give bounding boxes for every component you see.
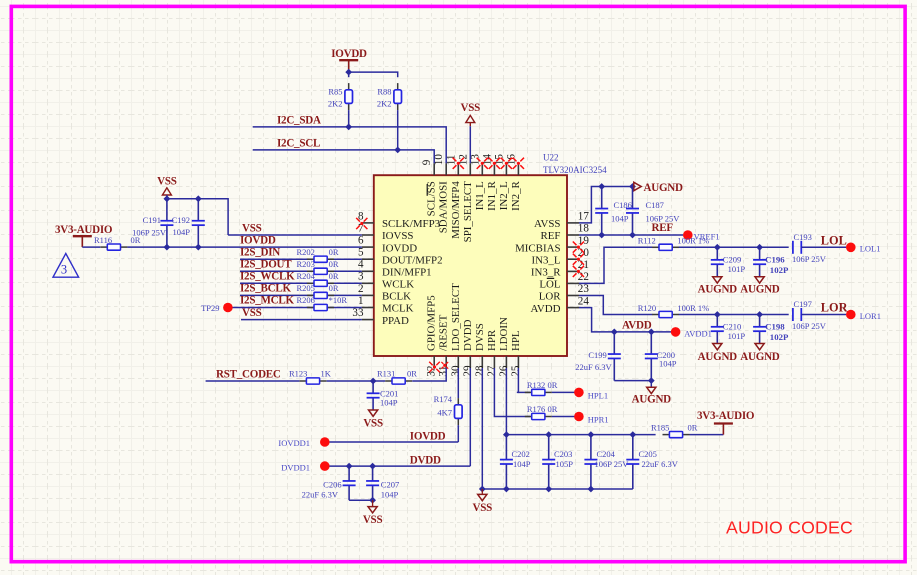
wire pin 29 to DVDD rail [469, 368, 471, 466]
wire VSS to pin 12 [469, 126, 471, 163]
wire net IOVDD to pin 6 [127, 244, 361, 251]
svg-text:26: 26 [498, 365, 510, 377]
svg-text:C196: C196 [765, 254, 785, 264]
svg-text:VSS: VSS [473, 502, 493, 514]
wire C193 to LOL1 [801, 246, 846, 248]
svg-text:I2S_DOUT: I2S_DOUT [240, 259, 292, 271]
net label RST_CODEC [216, 368, 281, 380]
no-connect X pin 31 [441, 362, 448, 369]
svg-text:C197: C197 [794, 299, 812, 309]
svg-text:0R: 0R [329, 247, 339, 257]
capacitor C207 [366, 466, 399, 500]
svg-text:REF: REF [541, 230, 561, 242]
svg-text:IOVDD: IOVDD [382, 242, 417, 254]
svg-text:C204: C204 [597, 449, 616, 459]
net label VSS pin33 [242, 307, 262, 319]
svg-text:C187: C187 [646, 200, 664, 210]
no-connect X pin 21 [573, 266, 584, 277]
net label I2S_MCLK [240, 295, 295, 307]
svg-text:IOVSS: IOVSS [382, 230, 413, 242]
capacitor C205 [626, 435, 678, 489]
ground VSS under C207 [363, 507, 383, 526]
capacitor C199 [575, 332, 621, 381]
svg-text:R203: R203 [297, 259, 315, 269]
sheet marker triangle 3 [53, 254, 79, 278]
svg-text:HPR: HPR [486, 329, 498, 351]
net label I2C_SCL [277, 137, 320, 149]
wire pin 30 to R174 [457, 368, 459, 398]
svg-text:R174: R174 [434, 394, 453, 404]
svg-text:R204: R204 [297, 271, 316, 281]
svg-text:HPL1: HPL1 [588, 390, 608, 400]
no-connect X pin 19 [573, 242, 584, 253]
svg-text:AUGND: AUGND [740, 284, 780, 296]
svg-text:100R 1%: 100R 1% [677, 303, 709, 313]
capacitor C201 [367, 381, 399, 410]
svg-text:0R: 0R [688, 422, 698, 432]
ground AUGND under C196 [740, 277, 780, 296]
svg-text:0R: 0R [329, 259, 339, 269]
svg-text:AVDD: AVDD [622, 319, 652, 331]
resistor R185 [651, 422, 698, 437]
port DVDD1 [281, 461, 329, 472]
svg-text:AUGND: AUGND [644, 182, 684, 194]
svg-text:3: 3 [358, 271, 364, 283]
svg-text:SCLK/MFP3: SCLK/MFP3 [382, 218, 441, 230]
svg-text:R85: R85 [328, 86, 342, 96]
svg-text:BCLK: BCLK [382, 291, 411, 303]
svg-text:PPAD: PPAD [382, 315, 409, 327]
net label LOR [821, 301, 848, 315]
svg-text:TLV320AIC3254: TLV320AIC3254 [543, 165, 607, 175]
svg-text:3V3-AUDIO: 3V3-AUDIO [697, 410, 755, 422]
ground AUGND under C198 [740, 344, 780, 363]
title AUDIO CODEC [726, 517, 853, 537]
svg-text:C203: C203 [554, 449, 572, 459]
resistor R85 [328, 83, 353, 110]
svg-text:9: 9 [421, 159, 433, 165]
svg-text:106P 25V: 106P 25V [792, 321, 827, 331]
wire R131 to pin 31 [412, 368, 446, 381]
svg-text:13: 13 [469, 154, 481, 166]
svg-text:R120: R120 [638, 303, 656, 313]
svg-text:C191: C191 [143, 215, 161, 225]
net label I2S_WCLK [240, 271, 295, 283]
svg-text:24: 24 [578, 295, 590, 307]
svg-text:2: 2 [358, 283, 364, 295]
wire AVDD caps bottom rail [614, 377, 654, 387]
svg-text:AUDIO CODEC: AUDIO CODEC [726, 517, 853, 537]
net label REF [652, 222, 674, 234]
port AVDD1 [671, 327, 712, 338]
wire net REF pin 18 [579, 232, 683, 239]
capacitor C191 [132, 199, 173, 247]
svg-text:TP29: TP29 [201, 303, 219, 313]
svg-text:AUGND: AUGND [698, 351, 738, 363]
svg-text:LDO_SELECT: LDO_SELECT [450, 283, 462, 351]
svg-text:LOL: LOL [821, 233, 847, 247]
wire R176 to HPR1 [552, 416, 575, 418]
wire net I2C_SDA [253, 127, 447, 163]
svg-text:104P: 104P [173, 227, 191, 237]
svg-text:18: 18 [578, 223, 590, 235]
svg-text:IOVDD1: IOVDD1 [278, 438, 310, 448]
net label I2S_DIN [240, 246, 280, 258]
wire R85 to I2C_SDA [345, 110, 352, 130]
svg-text:LOR: LOR [539, 291, 562, 303]
net label I2S_DOUT [240, 259, 292, 271]
capacitor C202 [500, 435, 531, 489]
svg-text:AVSS: AVSS [534, 218, 560, 230]
svg-text:R112: R112 [638, 236, 656, 246]
svg-text:C199: C199 [588, 350, 606, 360]
svg-text:R206: R206 [297, 295, 315, 305]
svg-text:106P 25V: 106P 25V [792, 254, 827, 264]
power symbol VSS top [461, 102, 481, 126]
wire pin 27 to R176 [494, 368, 530, 417]
comment TLV320AIC3254 [543, 165, 607, 175]
svg-text:R123: R123 [289, 369, 307, 379]
wire VSS rail top-left [164, 195, 229, 235]
capacitor C187 [626, 187, 680, 236]
svg-text:2K2: 2K2 [377, 98, 392, 108]
svg-text:6: 6 [358, 235, 364, 247]
svg-text:C206: C206 [323, 479, 341, 489]
port IOVDD1 [278, 437, 329, 448]
svg-text:R132: R132 [527, 380, 545, 390]
no-connect X pin 8 [356, 218, 367, 229]
svg-text:VSS: VSS [157, 175, 177, 187]
svg-text:VSS: VSS [242, 222, 262, 234]
svg-text:LOL: LOL [539, 279, 560, 291]
power symbol 3V3-AUDIO right [697, 410, 755, 435]
port HPR1 [574, 412, 608, 425]
wire net IOVDD rail [330, 425, 459, 442]
wire R132 to HPL1 [552, 391, 575, 393]
svg-text:104P: 104P [380, 398, 398, 408]
svg-text:33: 33 [352, 307, 364, 319]
port LOL1 [846, 243, 880, 254]
resistor R174 [434, 394, 463, 425]
svg-text:C209: C209 [723, 254, 741, 264]
resistor R88 [377, 83, 402, 110]
designator U22 [543, 153, 559, 163]
svg-text:101P: 101P [728, 264, 746, 274]
wire pin 23 to R120 [579, 296, 652, 315]
net label DVDD rail [410, 455, 441, 467]
wire pin 28 to VSS rail [481, 368, 483, 489]
port HPL1 [574, 388, 608, 401]
svg-text:AUGND: AUGND [632, 393, 672, 405]
wire pin 26 to LDOIN rail [505, 368, 507, 435]
net label I2S_BCLK [240, 283, 291, 295]
wire R185 to 3V3-AUDIO [690, 434, 724, 436]
net label VSS pin7 [242, 222, 262, 234]
no-connect X pin 14 [489, 158, 500, 169]
wire pin 17 to AUGND rail [579, 183, 636, 223]
svg-text:R185: R185 [651, 422, 669, 432]
svg-text:DVDD: DVDD [462, 319, 474, 351]
svg-text:R116: R116 [94, 235, 112, 245]
svg-text:0R: 0R [407, 368, 417, 378]
svg-text:REF: REF [652, 222, 674, 234]
capacitor C209 [711, 247, 746, 276]
wire LDOIN bottom rail [479, 486, 633, 493]
svg-text:VSS: VSS [461, 102, 481, 114]
svg-text:AVDD: AVDD [530, 303, 560, 315]
no-connect X pin 16 [513, 158, 524, 169]
svg-text:MCLK: MCLK [382, 303, 414, 315]
svg-text:104P: 104P [381, 489, 399, 499]
svg-text:AVDD1: AVDD1 [684, 328, 712, 338]
svg-text:SPI_SELECT: SPI_SELECT [462, 181, 474, 242]
wire 3V3-AUDIO to R116 [82, 246, 100, 248]
svg-text:DOUT/MFP2: DOUT/MFP2 [382, 254, 443, 266]
svg-text:4K7: 4K7 [437, 408, 452, 418]
capacitor C204 [584, 435, 629, 489]
wire LOR rail [679, 311, 789, 318]
svg-text:DVDD: DVDD [410, 455, 441, 467]
capacitor C192 [172, 199, 205, 247]
svg-text:104P: 104P [611, 213, 629, 223]
svg-text:I2S_BCLK: I2S_BCLK [240, 283, 291, 295]
svg-text:0R: 0R [548, 380, 558, 390]
svg-text:IN2_L: IN2_L [498, 181, 510, 210]
svg-text:DVDD1: DVDD1 [281, 462, 310, 472]
wire pin 25 to R132 [517, 368, 531, 392]
capacitor C198 [753, 315, 789, 344]
wire pin 24 to AVDD rail [579, 308, 671, 336]
resistor R203 [297, 259, 339, 275]
wire net VSS to pin 33 [241, 319, 362, 321]
testpoint TP29 [201, 303, 233, 313]
svg-text:C198: C198 [765, 322, 785, 332]
wire IOVDD to R85/R88 [345, 69, 397, 78]
no-connect X pin 13 [477, 158, 488, 169]
svg-text:22uF 6.3V: 22uF 6.3V [642, 459, 679, 469]
svg-text:IN3_L: IN3_L [531, 254, 560, 266]
svg-text:101P: 101P [728, 331, 746, 341]
no-connect X pin 15 [501, 158, 512, 169]
svg-text:IN1_L: IN1_L [474, 181, 486, 210]
wire net I2C_SCL [253, 150, 435, 163]
svg-text:5: 5 [358, 247, 364, 259]
wire C197 to LOR1 [801, 314, 846, 316]
svg-text:I2C_SDA: I2C_SDA [277, 114, 321, 126]
net label LOL [821, 233, 847, 247]
svg-text:30: 30 [450, 365, 462, 377]
svg-text:29: 29 [462, 365, 474, 377]
wire C206-C207 bottom rail [349, 497, 376, 507]
svg-text:IN3_R: IN3_R [531, 267, 561, 279]
capacitor C196 [753, 247, 789, 276]
ground AUGND under C210 [698, 344, 738, 363]
svg-text:100R 1%: 100R 1% [677, 236, 709, 246]
resistor R132 [525, 380, 558, 396]
capacitor C200 [645, 332, 677, 381]
svg-text:4: 4 [358, 259, 364, 271]
resistor R206 [297, 295, 348, 311]
capacitor C203 [542, 435, 573, 489]
resistor R205 [297, 283, 339, 299]
wire net DVDD rail [330, 463, 471, 470]
svg-text:I2S_WCLK: I2S_WCLK [240, 271, 295, 283]
svg-text:105P: 105P [556, 459, 574, 469]
svg-text:R88: R88 [377, 86, 391, 96]
net label AVDD [622, 319, 652, 331]
wire LOL rail [679, 244, 789, 251]
svg-text:19: 19 [578, 235, 590, 247]
svg-text:23: 23 [578, 283, 590, 295]
power symbol 3V3-AUDIO left [55, 224, 113, 247]
svg-text:I2C_SCL: I2C_SCL [277, 137, 320, 149]
svg-text:HPL: HPL [510, 330, 522, 351]
svg-text:102P: 102P [770, 332, 789, 342]
no-connect X pin 32 [429, 362, 440, 373]
no-connect X pin 11 [453, 158, 464, 169]
net label IOVDD pin6 [240, 234, 276, 246]
ground VSS under pin 28 [473, 489, 493, 514]
net label IOVDD rail [410, 430, 446, 442]
svg-text:C210: C210 [723, 322, 741, 332]
no-connect X pin 20 [573, 254, 584, 265]
resistor R123 [289, 369, 332, 384]
svg-text:C205: C205 [639, 449, 657, 459]
svg-text:I2S_MCLK: I2S_MCLK [240, 295, 295, 307]
svg-text:MISO/MFP4: MISO/MFP4 [450, 181, 462, 239]
capacitor C206 [302, 466, 356, 500]
svg-text:WCLK: WCLK [382, 279, 414, 291]
capacitor C193 [792, 232, 827, 264]
svg-text:3: 3 [61, 263, 67, 277]
capacitor C210 [711, 315, 746, 344]
svg-text:C202: C202 [512, 449, 530, 459]
svg-text:GPIO/MFP5: GPIO/MFP5 [426, 295, 438, 351]
svg-text:C192: C192 [172, 215, 190, 225]
svg-text:R202: R202 [297, 247, 315, 257]
resistor R116 [94, 235, 141, 250]
svg-text:25: 25 [510, 365, 522, 377]
svg-text:106P 25V: 106P 25V [132, 228, 167, 238]
svg-text:104P: 104P [513, 459, 531, 469]
svg-text:MICBIAS: MICBIAS [515, 242, 560, 254]
svg-text:0R: 0R [548, 404, 558, 414]
svg-text:28: 28 [474, 365, 486, 377]
svg-text:22uF 6.3V: 22uF 6.3V [575, 362, 612, 372]
svg-text:HPR1: HPR1 [588, 414, 609, 424]
svg-text:22uF 6.3V: 22uF 6.3V [302, 489, 339, 499]
svg-text:LOR: LOR [821, 301, 848, 315]
svg-text:U22: U22 [543, 153, 559, 163]
port symbol AUGND arrow [634, 182, 683, 194]
svg-text:I2S_DIN: I2S_DIN [240, 246, 280, 258]
svg-text:2K2: 2K2 [328, 98, 343, 108]
capacitor C197 [792, 299, 827, 331]
wire net I2S_DIN [240, 258, 362, 260]
svg-text:IOVDD: IOVDD [410, 430, 446, 442]
wire R88 to I2C_SCL [394, 110, 401, 153]
svg-text:C207: C207 [381, 479, 399, 489]
wire net I2S_DOUT [240, 270, 362, 272]
ground AUGND under C200 [632, 387, 672, 405]
svg-text:0R: 0R [329, 271, 339, 281]
wire net VSS to pin 7 [228, 234, 362, 236]
svg-text:IN2_R: IN2_R [510, 180, 522, 210]
svg-text:102P: 102P [770, 265, 789, 275]
svg-text:IOVDD: IOVDD [331, 48, 367, 60]
ground VSS under C201 [363, 410, 383, 430]
svg-text:C193: C193 [794, 232, 812, 242]
svg-text:LOR1: LOR1 [860, 311, 881, 321]
ground AUGND under C209 [698, 277, 738, 296]
svg-text:106P 25V: 106P 25V [595, 459, 630, 469]
wire net I2S_BCLK [240, 294, 362, 296]
wire net RST_CODEC [206, 380, 300, 382]
wire pin 22 to R112 [579, 247, 652, 283]
resistor R131 [377, 368, 417, 384]
power symbol IOVDD [331, 48, 367, 72]
svg-text:0R: 0R [329, 283, 339, 293]
svg-text:1: 1 [358, 295, 364, 307]
svg-text:AUGND: AUGND [740, 351, 780, 363]
resistor R176 [525, 404, 558, 420]
svg-text:R176: R176 [527, 404, 545, 414]
port VREF1 [683, 230, 720, 241]
wire net I2S_WCLK [240, 282, 362, 284]
svg-text:10: 10 [433, 154, 445, 166]
svg-text:VSS: VSS [363, 514, 383, 526]
resistor R112 [638, 236, 710, 251]
capacitor C186 [595, 187, 632, 236]
wire R123 to R131 [327, 378, 385, 385]
resistor R120 [638, 303, 710, 318]
net label I2C_SDA [277, 114, 321, 126]
svg-text:DVSS: DVSS [474, 323, 486, 351]
svg-text:LDOIN: LDOIN [498, 317, 510, 351]
resistor R204 [297, 271, 339, 287]
svg-text:R131: R131 [377, 368, 395, 378]
svg-text:LOL1: LOL1 [860, 244, 881, 254]
svg-text:DIN/MFP1: DIN/MFP1 [382, 267, 432, 279]
wire net LDOIN rail [503, 431, 656, 438]
svg-text:VSS: VSS [363, 418, 383, 430]
svg-text:RST_CODEC: RST_CODEC [216, 368, 281, 380]
svg-text:IOVDD: IOVDD [240, 234, 276, 246]
IC U22 TLV320AIC3254 body and pins [352, 154, 589, 377]
svg-text:AUGND: AUGND [698, 284, 738, 296]
resistor R202 [297, 247, 339, 263]
svg-text:SDA/MOSI: SDA/MOSI [438, 181, 450, 233]
svg-text:27: 27 [486, 365, 498, 377]
svg-text:104P: 104P [659, 359, 677, 369]
svg-text:VSS: VSS [242, 307, 262, 319]
svg-text:17: 17 [578, 211, 590, 223]
wire net I2S_MCLK [233, 307, 362, 309]
port LOR1 [846, 310, 881, 321]
svg-text:R205: R205 [297, 283, 315, 293]
svg-text:1K: 1K [321, 369, 332, 379]
svg-text:*10R: *10R [329, 295, 348, 305]
svg-text:IN1_R: IN1_R [486, 180, 498, 210]
svg-text:/RESET: /RESET [438, 314, 450, 351]
power symbol VSS left [157, 175, 177, 195]
